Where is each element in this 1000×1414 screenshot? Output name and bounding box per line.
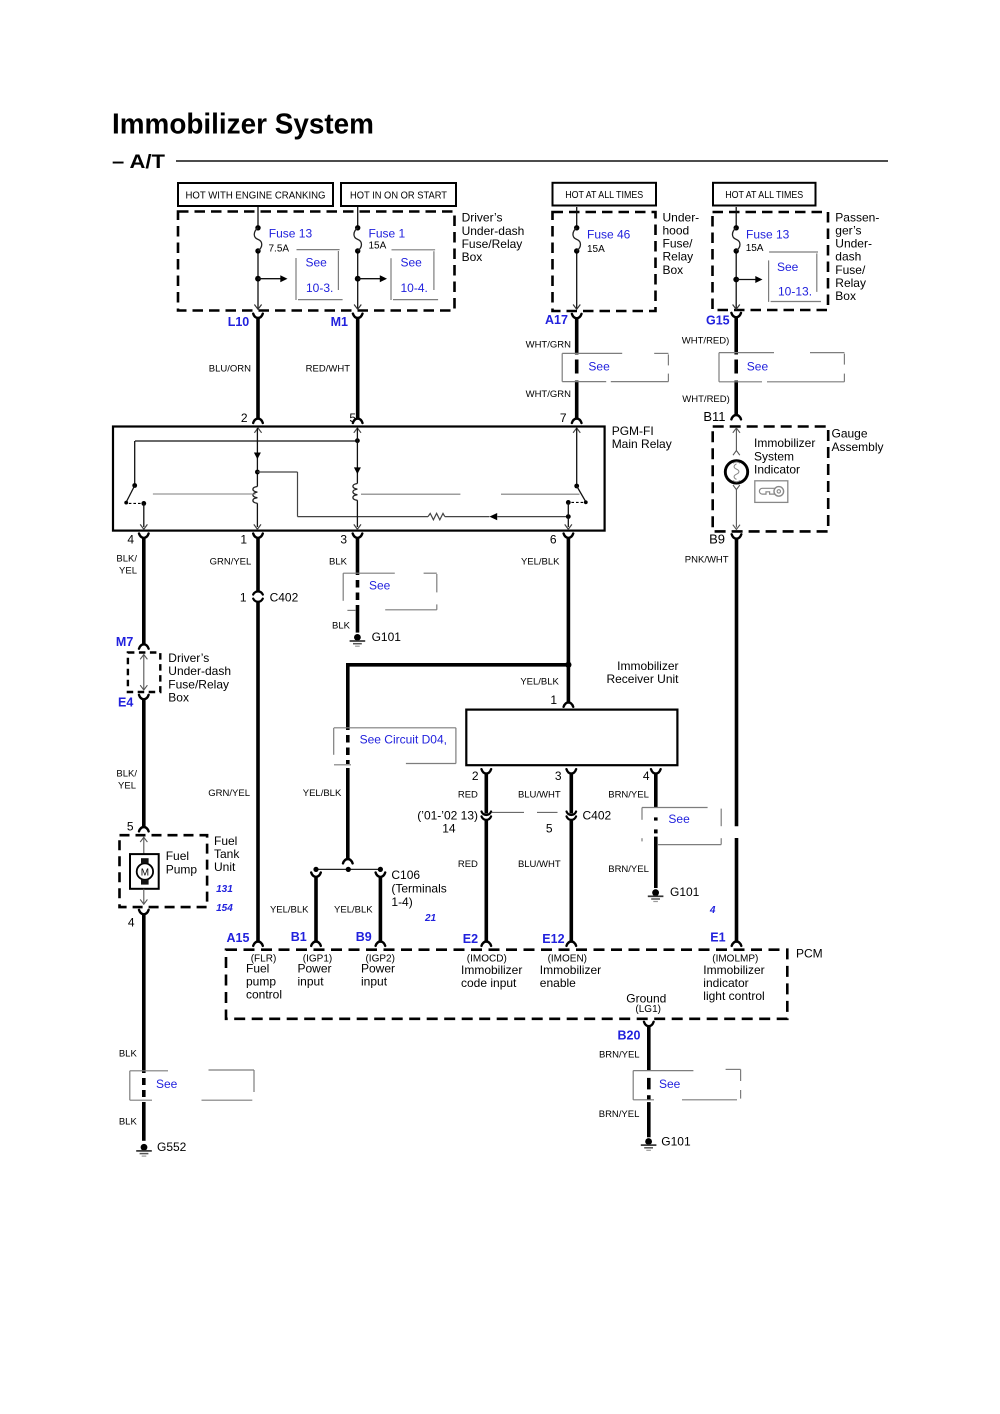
svg-text:PGM-FI: PGM-FI — [612, 424, 654, 438]
svg-text:C402: C402 — [583, 808, 612, 822]
svg-text:B9: B9 — [356, 930, 372, 944]
svg-text:Immobilizer System: Immobilizer System — [112, 109, 374, 141]
svg-text:7.5A: 7.5A — [269, 244, 290, 255]
svg-text:Gauge: Gauge — [832, 427, 868, 441]
svg-text:See: See — [747, 360, 769, 374]
svg-text:YEL/BLK: YEL/BLK — [521, 557, 560, 568]
svg-text:15A: 15A — [369, 241, 387, 252]
svg-text:M1: M1 — [331, 315, 348, 329]
svg-text:indicator: indicator — [703, 976, 748, 990]
svg-text:BLK: BLK — [119, 1117, 138, 1128]
svg-text:E12: E12 — [542, 932, 564, 946]
svg-text:C402: C402 — [270, 591, 299, 605]
svg-text:HOT AT ALL TIMES: HOT AT ALL TIMES — [565, 189, 643, 201]
svg-text:GRN/YEL: GRN/YEL — [208, 788, 250, 799]
svg-text:WHT/GRN: WHT/GRN — [526, 340, 572, 351]
svg-text:Immobilizer: Immobilizer — [703, 963, 764, 977]
svg-text:See: See — [659, 1077, 681, 1091]
svg-text:YEL: YEL — [118, 781, 136, 792]
svg-text:BRN/YEL: BRN/YEL — [608, 864, 649, 875]
svg-text:Fuel: Fuel — [166, 849, 189, 863]
svg-text:Box: Box — [835, 289, 856, 303]
svg-text:4: 4 — [128, 916, 135, 930]
svg-text:PNK/WHT: PNK/WHT — [685, 555, 729, 566]
svg-text:10-3.: 10-3. — [306, 281, 333, 295]
svg-text:GRN/YEL: GRN/YEL — [210, 557, 252, 568]
svg-text:YEL/BLK: YEL/BLK — [334, 905, 373, 916]
svg-text:Tank: Tank — [214, 847, 240, 861]
svg-text:HOT AT ALL TIMES: HOT AT ALL TIMES — [725, 189, 803, 201]
svg-text:Immobilizer: Immobilizer — [617, 659, 678, 673]
svg-text:C106: C106 — [391, 868, 420, 882]
svg-text:5: 5 — [127, 820, 134, 834]
svg-text:E4: E4 — [118, 695, 133, 709]
svg-text:System: System — [754, 449, 794, 463]
svg-text:3: 3 — [555, 769, 562, 783]
svg-text:Fuse 13: Fuse 13 — [269, 227, 313, 241]
svg-text:14: 14 — [442, 822, 456, 836]
svg-text:Power: Power — [298, 961, 332, 975]
svg-text:2: 2 — [472, 769, 479, 783]
svg-text:YEL/BLK: YEL/BLK — [270, 905, 309, 916]
svg-text:G101: G101 — [661, 1135, 691, 1149]
svg-text:B11: B11 — [703, 409, 725, 424]
svg-text:code input: code input — [461, 976, 517, 990]
svg-text:BLU/ORN: BLU/ORN — [209, 364, 251, 375]
svg-text:B9: B9 — [709, 532, 725, 547]
svg-text:input: input — [361, 974, 388, 988]
svg-text:10-4.: 10-4. — [401, 281, 428, 295]
svg-text:5: 5 — [546, 822, 553, 836]
svg-text:See: See — [156, 1077, 178, 1091]
svg-text:Power: Power — [361, 961, 395, 975]
svg-text:RED: RED — [458, 859, 478, 870]
svg-text:control: control — [246, 988, 282, 1002]
svg-text:1: 1 — [240, 591, 247, 605]
svg-text:See: See — [588, 360, 610, 374]
svg-text:(Terminals: (Terminals — [391, 881, 446, 895]
svg-text:15A: 15A — [746, 243, 764, 254]
svg-text:Main Relay: Main Relay — [612, 437, 672, 451]
svg-text:Indicator: Indicator — [754, 462, 800, 476]
svg-text:HOT WITH ENGINE CRANKING: HOT WITH ENGINE CRANKING — [186, 190, 326, 202]
svg-text:hood: hood — [663, 224, 690, 238]
svg-text:G101: G101 — [372, 630, 402, 644]
svg-text:B20: B20 — [618, 1029, 641, 1043]
svg-text:BLK/: BLK/ — [116, 554, 137, 565]
svg-text:(LG1): (LG1) — [635, 1004, 661, 1015]
svg-text:Fuse/Relay: Fuse/Relay — [168, 677, 229, 691]
svg-text:(’01-’02 13): (’01-’02 13) — [417, 808, 478, 822]
svg-text:1-4): 1-4) — [391, 895, 412, 909]
svg-text:L10: L10 — [228, 315, 250, 329]
svg-text:Under-dash: Under-dash — [462, 224, 525, 238]
svg-text:Assembly: Assembly — [832, 440, 884, 454]
svg-text:G552: G552 — [157, 1140, 187, 1154]
svg-text:Box: Box — [168, 690, 189, 704]
svg-text:Under-: Under- — [835, 237, 872, 251]
svg-text:M7: M7 — [116, 635, 133, 649]
svg-text:Fuel: Fuel — [246, 961, 269, 975]
svg-text:BLK: BLK — [329, 557, 348, 568]
svg-text:dash: dash — [835, 250, 861, 264]
svg-text:BRN/YEL: BRN/YEL — [608, 790, 649, 801]
svg-text:Under-dash: Under-dash — [168, 664, 231, 678]
svg-text:E2: E2 — [463, 932, 478, 946]
svg-text:YEL: YEL — [119, 566, 137, 577]
svg-text:Receiver Unit: Receiver Unit — [606, 672, 679, 686]
svg-text:WHT/RED): WHT/RED) — [682, 394, 730, 405]
svg-text:M: M — [141, 868, 149, 879]
svg-text:Driver’s: Driver’s — [462, 211, 503, 225]
svg-text:Pump: Pump — [166, 862, 198, 876]
svg-text:Driver’s: Driver’s — [168, 651, 209, 665]
svg-text:WHT/RED): WHT/RED) — [682, 336, 730, 347]
svg-text:BLK: BLK — [119, 1049, 138, 1060]
svg-text:5: 5 — [349, 411, 356, 425]
svg-text:Immobilizer: Immobilizer — [461, 963, 522, 977]
svg-text:A17: A17 — [545, 313, 568, 327]
svg-text:4: 4 — [127, 533, 134, 547]
svg-text:See: See — [668, 812, 690, 826]
svg-text:Fuse 13: Fuse 13 — [746, 228, 790, 242]
svg-text:Relay: Relay — [663, 250, 694, 264]
svg-text:PCM: PCM — [796, 946, 823, 960]
svg-text:Immobilizer: Immobilizer — [754, 436, 815, 450]
svg-text:pump: pump — [246, 974, 276, 988]
svg-text:Fuse/Relay: Fuse/Relay — [462, 237, 523, 251]
svg-text:Relay: Relay — [835, 276, 866, 290]
svg-text:Passen-: Passen- — [835, 210, 879, 224]
svg-text:21: 21 — [424, 913, 437, 924]
svg-text:10-13.: 10-13. — [778, 285, 812, 299]
svg-text:See Circuit D04,: See Circuit D04, — [360, 732, 447, 746]
svg-text:RED/WHT: RED/WHT — [306, 364, 351, 375]
svg-text:Fuse/: Fuse/ — [663, 237, 694, 251]
svg-text:6: 6 — [550, 533, 557, 547]
svg-text:A15: A15 — [227, 931, 250, 945]
svg-text:Fuse 1: Fuse 1 — [369, 227, 406, 241]
svg-text:Immobilizer: Immobilizer — [540, 963, 601, 977]
svg-text:input: input — [298, 974, 325, 988]
svg-text:15A: 15A — [587, 244, 605, 255]
svg-text:BLK/: BLK/ — [116, 769, 137, 780]
svg-text:Fuse 46: Fuse 46 — [587, 228, 631, 242]
svg-text:BRN/YEL: BRN/YEL — [599, 1050, 640, 1061]
svg-text:RED: RED — [458, 790, 478, 801]
svg-text:BLU/WHT: BLU/WHT — [518, 859, 561, 870]
svg-text:Under-: Under- — [663, 210, 700, 224]
svg-text:Fuse/: Fuse/ — [835, 263, 866, 277]
svg-text:1: 1 — [240, 533, 247, 547]
svg-text:Box: Box — [663, 263, 684, 277]
svg-text:BLU/WHT: BLU/WHT — [518, 790, 561, 801]
svg-text:G101: G101 — [670, 885, 700, 899]
svg-text:1: 1 — [550, 693, 557, 707]
svg-text:154: 154 — [216, 903, 233, 914]
svg-text:BRN/YEL: BRN/YEL — [599, 1109, 640, 1120]
svg-text:WHT/GRN: WHT/GRN — [526, 389, 572, 400]
svg-text:E1: E1 — [710, 931, 725, 945]
svg-text:ger’s: ger’s — [835, 224, 861, 238]
svg-text:enable: enable — [540, 976, 576, 990]
svg-text:See: See — [306, 255, 328, 269]
svg-text:7: 7 — [560, 411, 567, 425]
svg-text:G15: G15 — [706, 314, 730, 328]
svg-text:4: 4 — [643, 769, 650, 783]
svg-text:Fuel: Fuel — [214, 834, 237, 848]
svg-text:See: See — [369, 579, 391, 593]
svg-text:Box: Box — [462, 250, 483, 264]
svg-text:131: 131 — [216, 884, 233, 895]
svg-text:YEL/BLK: YEL/BLK — [303, 788, 342, 799]
svg-text:See: See — [777, 260, 799, 274]
svg-text:See: See — [401, 255, 423, 269]
svg-text:2: 2 — [241, 411, 248, 425]
svg-text:4: 4 — [709, 905, 716, 916]
svg-text:B1: B1 — [291, 930, 307, 944]
svg-text:YEL/BLK: YEL/BLK — [520, 677, 559, 688]
svg-text:HOT IN ON OR START: HOT IN ON OR START — [350, 190, 448, 202]
svg-text:– A/T: – A/T — [112, 151, 165, 173]
svg-text:Unit: Unit — [214, 860, 236, 874]
svg-text:3: 3 — [340, 533, 347, 547]
svg-text:BLK: BLK — [332, 621, 351, 632]
svg-text:light control: light control — [703, 989, 764, 1003]
